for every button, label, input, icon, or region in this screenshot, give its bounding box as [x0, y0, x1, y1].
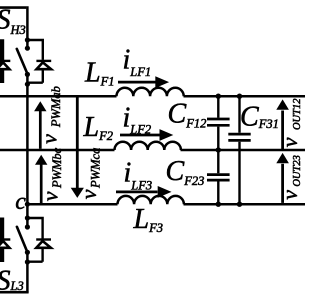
capacitor CF12 leads	[217, 96, 219, 150]
diode DL3 triangle	[36, 241, 51, 248]
svg-text:CF31: CF31	[240, 102, 279, 133]
arrow iLF1 (right)	[118, 81, 157, 84]
capacitor CF23 plates	[207, 175, 230, 181]
svg-text:SH3: SH3	[0, 4, 26, 37]
svg-text:CF23: CF23	[166, 156, 205, 188]
arrow iLF2 (right)	[120, 134, 160, 137]
junction dot SH3 diode rejoin	[25, 82, 30, 87]
capacitor CF31 leads	[238, 96, 240, 204]
junction dot SH3 switch bottom	[25, 72, 30, 77]
wire: DC- bottom rail	[0, 291, 29, 294]
capacitor CF31 plates	[228, 134, 250, 140]
svg-text:vPWMca: vPWMca	[76, 148, 103, 200]
junction dot node c on rail3	[25, 202, 30, 207]
neighbour diode cathode bar (upper)	[0, 60, 10, 62]
svg-text:LF2: LF2	[83, 112, 113, 143]
junction dot SL3 diode split	[25, 215, 30, 220]
switch SH3 blade	[17, 49, 28, 74]
capacitor CF23 leads	[217, 150, 219, 204]
capacitor CF12 plates	[207, 119, 230, 125]
neighbour diode triangle (upper)	[0, 62, 9, 69]
junction dot on leg at diode split (top)	[25, 37, 30, 42]
junction dot CF23 on rail3	[216, 202, 221, 207]
svg-text:SL3: SL3	[0, 265, 24, 296]
arrow vPWMab (up)	[39, 110, 42, 149]
inductor LF3 coil	[118, 196, 184, 204]
neighbour leg fragment: lower diode branch (cut at left edge)	[0, 218, 4, 263]
wire: phase-a rail (top)	[0, 95, 305, 98]
svg-text:LF3: LF3	[133, 204, 163, 235]
inductor LF2 coil	[115, 142, 181, 150]
switch SL3 blade	[17, 227, 28, 252]
arrow vOUT12 (up)	[281, 111, 284, 150]
junction dot CF31 on rail1	[237, 94, 242, 99]
diode DH3 cathode bar	[36, 60, 51, 62]
wire: SL3 diode branch top	[27, 217, 42, 239]
arrow iLF3 (right)	[116, 191, 158, 194]
svg-text:iLF2: iLF2	[123, 103, 152, 137]
wire: SL3 diode branch bottom	[27, 248, 42, 262]
inductor LF1 coil	[117, 88, 184, 96]
junction dot SL3 switch top	[25, 224, 30, 229]
wire: SH3 diode branch bottom	[27, 69, 42, 83]
arrow vOUT23 (up)	[281, 164, 284, 203]
wire: leg vertical top segment (DC+ to switch SH3 top)	[26, 6, 29, 293]
junction dot CF12 on rail2	[216, 147, 221, 152]
junction dot SH3 switch top	[25, 46, 30, 51]
diode DL3 cathode bar	[36, 238, 51, 240]
junction dot SL3 switch bottom	[25, 250, 30, 255]
junction dot SL3 diode rejoin	[25, 259, 30, 264]
neighbour diode cathode bar (lower)	[0, 238, 10, 240]
junction dot CF31 on rail3	[237, 202, 242, 207]
svg-text:CF12: CF12	[168, 99, 207, 131]
svg-text:c: c	[15, 189, 26, 215]
arrow vPWMbc (up)	[40, 164, 43, 204]
arrow vPWMca (down)	[76, 97, 79, 188]
diode DH3 triangle	[37, 62, 52, 69]
neighbour diode triangle (lower)	[0, 241, 9, 248]
neighbour leg fragment: upper diode branch (cut at left edge)	[0, 39, 4, 83]
junction dot CF12 on rail1	[216, 94, 221, 99]
svg-text:iLF1: iLF1	[123, 45, 152, 80]
wire: phase-b rail (middle)	[0, 149, 305, 152]
svg-text:iLF3: iLF3	[124, 158, 153, 193]
svg-text:LF1: LF1	[84, 57, 114, 88]
wire: phase-c rail (bottom)	[27, 203, 305, 206]
wire: SH3 diode branch top	[27, 39, 42, 60]
wire: DC+ top rail	[0, 6, 26, 9]
